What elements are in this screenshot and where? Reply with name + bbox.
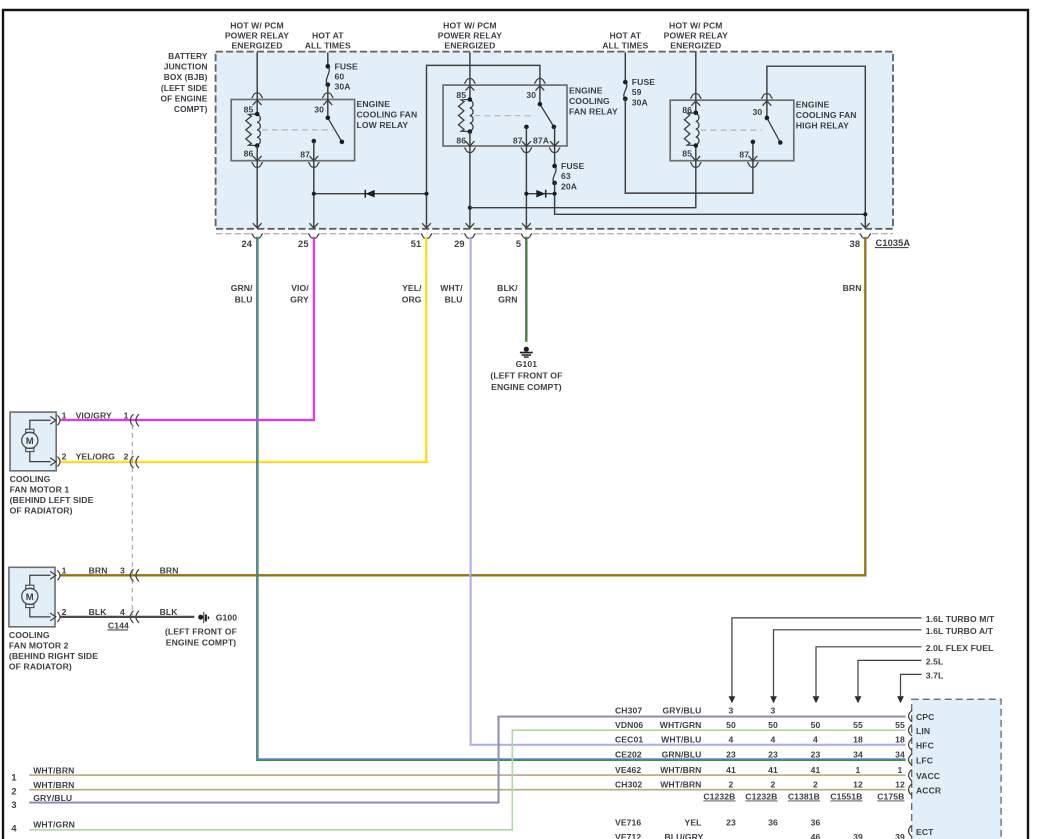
relay3 pin85 arrow <box>691 156 700 161</box>
wire GRN/BLU pin 24 to PCM LFC line <box>256 237 257 759</box>
relay1 pin86 arrow <box>253 156 262 161</box>
svg-text:BLU: BLU <box>235 294 253 304</box>
engine variant callout 2.5L <box>858 660 922 702</box>
svg-text:BRN: BRN <box>160 565 179 575</box>
svg-text:50: 50 <box>726 720 736 730</box>
svg-text:1: 1 <box>62 565 67 575</box>
motor 1 pin 2 connector <box>50 458 56 466</box>
svg-text:WHT/GRN: WHT/GRN <box>33 820 75 830</box>
motor 2 internal wires <box>30 575 51 585</box>
BJB pin 24 exit arrow <box>253 223 262 228</box>
svg-text:OF ENGINE: OF ENGINE <box>161 93 208 103</box>
PCM pin connector ACCR <box>909 784 912 795</box>
svg-text:OF RADIATOR): OF RADIATOR) <box>9 662 72 672</box>
svg-text:46: 46 <box>811 832 821 839</box>
svg-text:HOT AT: HOT AT <box>609 31 641 41</box>
relay3 pin30 arrow <box>763 101 772 106</box>
svg-text:30A: 30A <box>632 97 648 107</box>
wire WHT/GRN row4 VDN06 to PCM LIN <box>29 730 905 830</box>
svg-text:55: 55 <box>853 720 863 730</box>
svg-text:WHT/GRN: WHT/GRN <box>660 720 702 730</box>
relay1 pin30 arrow <box>323 100 332 105</box>
svg-text:1: 1 <box>124 410 129 420</box>
svg-text:4: 4 <box>120 607 125 617</box>
svg-text:30: 30 <box>526 90 536 100</box>
svg-text:85: 85 <box>682 148 692 158</box>
svg-text:39: 39 <box>853 832 863 839</box>
svg-text:WHT/BRN: WHT/BRN <box>660 780 701 790</box>
svg-text:3: 3 <box>771 706 776 716</box>
svg-text:GRN/BLU: GRN/BLU <box>662 749 702 759</box>
wire - fuse60 to relay1 pin 30 <box>327 85 329 118</box>
wire - relay1 pin 87 down <box>313 141 315 228</box>
svg-text:G101: G101 <box>516 359 538 369</box>
svg-text:3: 3 <box>11 800 16 810</box>
engine variant callout 1.6L TURBO A/T <box>774 630 922 703</box>
svg-text:FAN MOTOR 2: FAN MOTOR 2 <box>9 641 69 651</box>
relay1 pin86 connector arc <box>252 162 263 167</box>
svg-text:BLU/GRY: BLU/GRY <box>664 832 703 839</box>
cooling fan motor 2 box <box>9 567 55 627</box>
svg-text:4: 4 <box>11 823 17 833</box>
PCM pin connector CPC <box>909 710 912 721</box>
engine variant callout 3.7L <box>901 674 922 702</box>
wire - fuse59 to relay3 pin 87 <box>625 99 753 193</box>
svg-text:(LEFT FRONT OF: (LEFT FRONT OF <box>165 626 237 636</box>
relay1 pin85 connector arc <box>252 93 263 98</box>
svg-text:86: 86 <box>244 148 254 158</box>
svg-text:ENERGIZED: ENERGIZED <box>444 41 495 51</box>
wire - relay3 pin30 riser to BRN junction <box>767 66 865 228</box>
svg-text:38: 38 <box>850 239 861 249</box>
wire - hot at all times to fuse 59 <box>624 52 626 82</box>
svg-text:WHT/BRN: WHT/BRN <box>33 766 74 776</box>
svg-text:63: 63 <box>561 171 571 181</box>
svg-text:30A: 30A <box>335 82 351 92</box>
svg-text:25: 25 <box>298 239 309 249</box>
svg-text:HOT W/ PCM: HOT W/ PCM <box>443 21 497 31</box>
svg-text:COOLING FAN: COOLING FAN <box>796 110 857 120</box>
svg-text:BATTERY: BATTERY <box>168 51 208 61</box>
svg-text:WHT/BRN: WHT/BRN <box>33 780 74 790</box>
svg-text:COMPT): COMPT) <box>174 104 208 114</box>
svg-text:ENERGIZED: ENERGIZED <box>670 41 721 51</box>
svg-text:YEL/: YEL/ <box>402 283 422 293</box>
svg-text:55: 55 <box>895 720 905 730</box>
wire VIO/GRY pin 25 to cooling fan motor 1 pin 1 <box>60 237 315 420</box>
relay3 armature dashed link <box>701 129 763 131</box>
relay1 switch blade <box>328 118 342 142</box>
wire - relay2-87 junction to fuse63 bottom <box>526 193 554 195</box>
wire BRN pin 38 to cooling fan motor 2 pin 1 <box>60 237 866 576</box>
BJB pin 25 exit arrow <box>309 223 318 228</box>
svg-text:5: 5 <box>516 239 521 249</box>
svg-text:ENGINE: ENGINE <box>357 99 391 109</box>
BJB pin 38 exit arrow <box>861 223 870 228</box>
svg-text:1.6L TURBO M/T: 1.6L TURBO M/T <box>926 614 995 624</box>
svg-text:30: 30 <box>753 107 763 117</box>
svg-text:1.6L TURBO A/T: 1.6L TURBO A/T <box>926 626 994 636</box>
wire - relay2 pin87A to fuse 63 <box>554 127 556 166</box>
svg-text:1: 1 <box>856 765 861 775</box>
svg-text:2: 2 <box>729 780 734 790</box>
svg-text:YEL: YEL <box>684 818 701 828</box>
ground G100 symbol <box>198 615 203 620</box>
svg-text:CEC01: CEC01 <box>615 735 643 745</box>
relay3 pin86 arrow <box>691 101 700 106</box>
svg-text:VACC: VACC <box>916 771 940 781</box>
junction BRN riser / fuse63 line <box>863 212 867 216</box>
relay1 pin 87 contact <box>312 139 317 144</box>
svg-text:50: 50 <box>811 720 821 730</box>
svg-text:GRY: GRY <box>290 294 309 304</box>
svg-text:51: 51 <box>411 239 422 249</box>
diode D2 <box>545 190 547 198</box>
svg-text:2: 2 <box>11 787 16 797</box>
svg-text:3.7L: 3.7L <box>926 671 944 681</box>
motor 1 symbol <box>22 432 38 448</box>
svg-text:2: 2 <box>62 607 67 617</box>
engine variant callout 1.6L TURBO M/T <box>732 618 922 702</box>
junction pin51 riser <box>424 192 428 196</box>
relay box - engine cooling fan relay <box>443 85 567 146</box>
BJB pin 25 connector arc <box>308 234 319 239</box>
relay2 switch blade <box>540 104 554 127</box>
svg-text:87: 87 <box>300 150 310 160</box>
svg-text:OF RADIATOR): OF RADIATOR) <box>10 505 73 515</box>
junction relay2-86 / relay3-85 <box>468 206 472 210</box>
BJB pin 29 exit arrow <box>466 223 475 228</box>
relay3 coil <box>684 113 695 146</box>
svg-text:BLK: BLK <box>160 607 179 617</box>
svg-text:86: 86 <box>456 136 466 146</box>
engine variant callout 2.0L FLEX FUEL <box>816 647 922 703</box>
svg-text:COOLING: COOLING <box>9 630 50 640</box>
junction relay1-87 <box>312 192 316 196</box>
svg-text:36: 36 <box>768 818 778 828</box>
svg-text:FAN MOTOR 1: FAN MOTOR 1 <box>10 484 70 494</box>
inline connector at motor1 pin2 <box>130 456 133 468</box>
svg-text:C144: C144 <box>108 620 129 630</box>
wire WHT/BRN row2 CH302 to PCM ACCR <box>29 789 905 791</box>
BJB pin 51 exit arrow <box>422 223 431 228</box>
svg-text:C1232B: C1232B <box>703 792 735 802</box>
relay1 armature dashed link <box>262 129 333 131</box>
relay2 pin30 connector arc <box>534 79 545 84</box>
svg-text:2: 2 <box>813 780 818 790</box>
relay2 coil <box>459 100 470 132</box>
wire - fuse 60 feed <box>327 52 329 66</box>
svg-text:VE712: VE712 <box>615 832 641 839</box>
BJB pin 29 connector arc <box>464 234 475 239</box>
wire WHT/BLU pin 29 to PCM HFC line <box>469 237 470 744</box>
svg-text:FUSE: FUSE <box>632 77 655 87</box>
wire - feed to relay3 pin 86 <box>695 52 697 112</box>
svg-text:C1551B: C1551B <box>830 792 862 802</box>
relay2 armature dashed link <box>475 115 536 117</box>
svg-text:ALL TIMES: ALL TIMES <box>602 41 648 51</box>
wire WHT/BRN row1 VE462 to PCM VACC <box>29 774 905 776</box>
motor 1 pin 1 connector <box>50 416 56 424</box>
PCM pin connector ECT <box>909 825 912 836</box>
svg-text:CPC: CPC <box>916 712 934 722</box>
svg-text:ENGINE: ENGINE <box>569 85 603 95</box>
PCM pin connector LIN <box>909 725 912 736</box>
relay1 coil <box>246 114 257 146</box>
relay2 pin87A connector arc <box>549 148 560 153</box>
PCM dashed box <box>912 699 1001 839</box>
junction fuse63 bottom <box>553 192 557 196</box>
wire - relay1 coil to pin 86 <box>256 146 258 228</box>
svg-text:23: 23 <box>726 818 736 828</box>
svg-text:C1381B: C1381B <box>788 792 820 802</box>
svg-text:WHT/BRN: WHT/BRN <box>660 765 701 775</box>
svg-text:HOT AT: HOT AT <box>312 31 344 41</box>
relay1 pin87 connector arc <box>308 162 319 167</box>
svg-text:ENGINE COMPT): ENGINE COMPT) <box>166 637 237 647</box>
wire - relay2 coil pin86 down to BJB pin 29 <box>469 132 471 228</box>
svg-text:12: 12 <box>895 780 905 790</box>
svg-text:34: 34 <box>853 749 863 759</box>
svg-text:87: 87 <box>739 150 749 160</box>
svg-text:87: 87 <box>513 136 523 146</box>
battery junction box (BJB) dashed enclosure <box>216 52 893 229</box>
svg-text:ALL TIMES: ALL TIMES <box>305 41 351 51</box>
relay2 pin85 arrow <box>466 86 475 91</box>
wire BLK/GRN pin 5 to ground G101 <box>525 237 526 342</box>
svg-text:CE202: CE202 <box>615 749 642 759</box>
svg-text:C1232B: C1232B <box>745 792 777 802</box>
svg-text:2: 2 <box>771 780 776 790</box>
relay2 pin85 connector arc <box>464 79 475 84</box>
svg-text:WHT/: WHT/ <box>440 283 463 293</box>
svg-text:BLU: BLU <box>445 294 463 304</box>
harness connector dashed line <box>131 425 133 616</box>
wire YEL/ORG pin 51 to cooling fan motor 1 pin 2 <box>425 237 427 462</box>
svg-text:1: 1 <box>898 765 903 775</box>
svg-text:HIGH RELAY: HIGH RELAY <box>796 121 849 131</box>
svg-text:C175B: C175B <box>877 792 904 802</box>
svg-text:BRN: BRN <box>89 565 108 575</box>
svg-text:YEL/ORG: YEL/ORG <box>76 452 116 462</box>
svg-text:HOT W/ PCM: HOT W/ PCM <box>669 21 723 31</box>
svg-text:JUNCTION: JUNCTION <box>164 62 208 72</box>
BJB pin 24 connector arc <box>252 234 263 239</box>
svg-text:4: 4 <box>729 735 734 745</box>
motor 2 symbol <box>22 588 38 604</box>
cooling fan motor 1 box <box>10 412 56 471</box>
fuse F63 <box>553 166 556 183</box>
BJB connector double line C1035A <box>216 233 251 235</box>
relay1 pin87 arrow <box>309 156 318 161</box>
relay2 pin87 connector arc <box>521 148 532 153</box>
inline connector at motor1 pin1 <box>130 414 133 426</box>
svg-text:CH307: CH307 <box>615 706 642 716</box>
svg-text:2: 2 <box>62 452 67 462</box>
svg-text:18: 18 <box>895 735 905 745</box>
motor 2 pin 1 connector <box>50 571 56 579</box>
svg-text:HOT W/ PCM: HOT W/ PCM <box>230 21 284 31</box>
svg-text:FUSE: FUSE <box>561 161 584 171</box>
svg-text:HFC: HFC <box>916 740 934 750</box>
diode line relay1-87 to pin51 riser <box>314 193 427 195</box>
svg-text:ECT: ECT <box>916 827 934 837</box>
svg-text:24: 24 <box>241 239 252 249</box>
relay3 pin87 arrow <box>749 156 758 161</box>
relay1 pin30 connector arc <box>322 93 333 98</box>
svg-text:BRN: BRN <box>843 283 862 293</box>
svg-text:FAN RELAY: FAN RELAY <box>569 106 618 116</box>
svg-text:(BEHIND LEFT SIDE: (BEHIND LEFT SIDE <box>10 495 94 505</box>
svg-text:CH302: CH302 <box>615 780 642 790</box>
wire - BJB pin51 riser to relay2 pin30 <box>427 65 540 228</box>
inline connector at motor2 pin2 <box>130 611 133 623</box>
svg-text:29: 29 <box>454 239 465 249</box>
svg-text:POWER RELAY: POWER RELAY <box>438 31 502 41</box>
svg-text:20A: 20A <box>561 181 577 191</box>
svg-text:39: 39 <box>895 832 905 839</box>
wire - feed to relay2 pin 85 <box>469 52 471 99</box>
svg-text:GRN/: GRN/ <box>231 283 253 293</box>
svg-text:POWER RELAY: POWER RELAY <box>225 31 289 41</box>
svg-text:(LEFT SIDE: (LEFT SIDE <box>161 83 208 93</box>
svg-text:2.0L FLEX FUEL: 2.0L FLEX FUEL <box>926 643 994 653</box>
svg-text:3: 3 <box>120 565 125 575</box>
svg-text:(BEHIND RIGHT SIDE: (BEHIND RIGHT SIDE <box>9 651 98 661</box>
svg-text:87A: 87A <box>533 136 549 146</box>
motor 2 pin 2 connector <box>50 613 56 621</box>
svg-text:G100: G100 <box>216 613 238 623</box>
PCM pin connector LFC <box>909 754 912 765</box>
svg-text:60: 60 <box>335 72 345 82</box>
inline connector at motor2 pin1 <box>130 569 133 581</box>
svg-text:50: 50 <box>768 720 778 730</box>
relay2 pin86 arrow <box>466 141 475 146</box>
relay2 pin 87 contact <box>524 125 529 130</box>
svg-text:4: 4 <box>771 735 776 745</box>
svg-text:(LEFT FRONT OF: (LEFT FRONT OF <box>490 370 562 380</box>
BJB pin 38 connector arc <box>860 234 871 239</box>
svg-text:ENGINE COMPT): ENGINE COMPT) <box>491 382 562 392</box>
svg-text:2: 2 <box>124 452 129 462</box>
svg-text:1: 1 <box>62 410 67 420</box>
relay box - engine cooling fan high relay <box>670 100 794 161</box>
svg-text:2.5L: 2.5L <box>926 657 944 667</box>
fuse F60 <box>326 66 329 84</box>
svg-text:VIO/GRY: VIO/GRY <box>76 410 112 420</box>
svg-text:41: 41 <box>726 765 736 775</box>
wire BLK motor2 pin2 to ground G100 <box>60 616 195 618</box>
PCM pin connector HFC <box>909 739 912 750</box>
svg-text:VDN06: VDN06 <box>615 720 643 730</box>
relay3 pin30 connector arc <box>761 94 772 99</box>
relay3 pin86 connector arc <box>690 94 701 99</box>
svg-text:COOLING: COOLING <box>569 96 610 106</box>
relay2 pin87 arrow <box>522 141 531 146</box>
PCM pin connector VACC <box>909 769 912 780</box>
svg-text:COOLING: COOLING <box>10 474 51 484</box>
relay box - engine cooling fan low relay <box>231 100 354 161</box>
svg-text:VE462: VE462 <box>615 765 641 775</box>
svg-text:18: 18 <box>853 735 863 745</box>
relay3 pin85 connector arc <box>690 162 701 167</box>
svg-text:GRY/BLU: GRY/BLU <box>662 706 701 716</box>
svg-text:ORG: ORG <box>402 294 422 304</box>
svg-text:VIO/: VIO/ <box>291 283 309 293</box>
svg-text:23: 23 <box>811 749 821 759</box>
relay3 pin87 connector arc <box>747 162 758 167</box>
svg-text:41: 41 <box>768 765 778 775</box>
svg-text:85: 85 <box>244 104 254 114</box>
motor 1 internal wires <box>30 420 51 429</box>
svg-text:3: 3 <box>729 706 734 716</box>
svg-text:23: 23 <box>726 749 736 759</box>
svg-text:36: 36 <box>811 818 821 828</box>
wire - relay2 pin86 to relay3 pin85 <box>470 146 696 208</box>
svg-text:ACCR: ACCR <box>916 786 942 796</box>
ground G101 symbol <box>524 347 529 352</box>
svg-text:POWER RELAY: POWER RELAY <box>664 31 728 41</box>
svg-text:ENGINE: ENGINE <box>796 100 830 110</box>
svg-text:12: 12 <box>853 780 863 790</box>
svg-text:BOX (BJB): BOX (BJB) <box>164 72 208 82</box>
svg-text:WHT/BLU: WHT/BLU <box>661 735 701 745</box>
wire GRY/BLU row3 CH307 to PCM CPC <box>29 802 499 803</box>
svg-text:M: M <box>26 592 34 603</box>
svg-text:C1035A: C1035A <box>876 238 911 248</box>
svg-text:41: 41 <box>811 765 821 775</box>
svg-text:85: 85 <box>456 90 466 100</box>
relay2 pin86 connector arc <box>464 148 475 153</box>
svg-text:1: 1 <box>11 773 16 783</box>
fuse F59 <box>624 82 627 99</box>
svg-text:COOLING FAN: COOLING FAN <box>357 110 418 120</box>
svg-text:59: 59 <box>632 87 642 97</box>
diode D1 <box>364 190 366 198</box>
relay1 pin85 arrow <box>253 100 262 105</box>
BJB pin 5 exit arrow <box>522 223 531 228</box>
svg-text:34: 34 <box>895 749 905 759</box>
relay2 pin30 arrow <box>536 86 545 91</box>
svg-text:BLK: BLK <box>89 607 108 617</box>
BJB pin 51 connector arc <box>421 234 432 239</box>
svg-text:BLK/: BLK/ <box>497 283 518 293</box>
svg-text:30: 30 <box>314 104 324 114</box>
svg-text:M: M <box>26 436 34 447</box>
svg-text:LFC: LFC <box>916 755 933 765</box>
svg-text:GRY/BLU: GRY/BLU <box>33 793 72 803</box>
relay2 pin87A arrow <box>550 141 559 146</box>
svg-text:FUSE: FUSE <box>335 61 358 71</box>
svg-text:LOW RELAY: LOW RELAY <box>357 120 409 130</box>
BJB pin 5 connector arc <box>521 234 532 239</box>
wire - feed to relay1 pin 85 <box>256 52 258 114</box>
svg-text:LIN: LIN <box>916 726 930 736</box>
svg-text:23: 23 <box>768 749 778 759</box>
relay3 switch blade <box>767 118 780 143</box>
svg-text:ENERGIZED: ENERGIZED <box>231 41 282 51</box>
wire - fuse63 to BRN junction <box>555 183 866 214</box>
svg-text:GRN: GRN <box>498 294 517 304</box>
svg-text:4: 4 <box>813 735 818 745</box>
relay3 pin 87 contact <box>751 140 756 145</box>
wire - relay2 pin87 down to BJB pin 5 <box>525 127 527 228</box>
svg-text:VE716: VE716 <box>615 818 641 828</box>
junction relay2-87 / pin5 <box>524 192 528 196</box>
